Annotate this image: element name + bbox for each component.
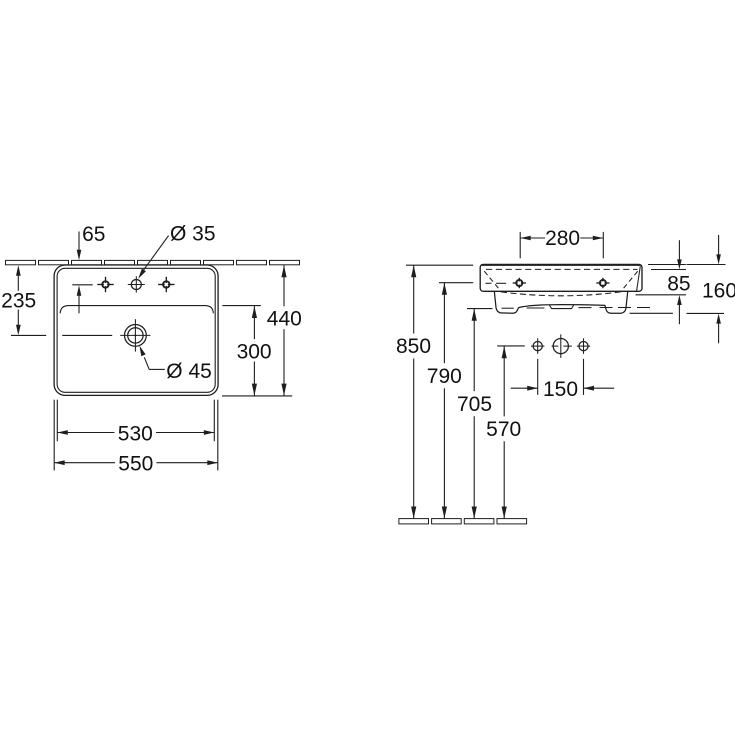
dimension 300 <box>222 306 271 396</box>
svg-text:705: 705 <box>457 393 492 416</box>
dimension 85 <box>667 240 690 324</box>
tap hole cross left <box>97 277 113 292</box>
svg-text:160: 160 <box>702 279 735 302</box>
svg-text:850: 850 <box>396 335 431 358</box>
svg-text:150: 150 <box>543 378 578 401</box>
svg-text:Ø 45: Ø 45 <box>166 360 212 383</box>
tap centre line tick <box>72 284 92 286</box>
drain centre line <box>11 334 112 336</box>
drain cover tab <box>549 305 573 309</box>
basin top reference lines <box>648 264 726 266</box>
body bottom reference line <box>636 294 687 296</box>
basin inner rim outline <box>57 268 215 392</box>
svg-text:85: 85 <box>667 272 690 295</box>
svg-text:Ø 35: Ø 35 <box>170 223 216 246</box>
dimension 235 <box>1 265 36 335</box>
dimension 150 <box>511 359 615 401</box>
hidden bowl slant right <box>621 271 638 291</box>
dimension 705 <box>457 309 493 519</box>
dimension 530 <box>57 400 214 446</box>
depth extension line <box>222 395 292 397</box>
lower fixing cross left <box>531 338 544 354</box>
svg-text:235: 235 <box>1 290 36 313</box>
dimension 570 <box>486 346 525 519</box>
fixing hole cross right <box>596 278 609 288</box>
drain hole circles <box>120 319 150 351</box>
bracket hidden line <box>502 307 651 310</box>
svg-text:280: 280 <box>545 227 580 250</box>
dimension Ø 35 <box>138 223 215 279</box>
hidden bowl slant left <box>484 271 501 291</box>
rim reference line <box>651 269 686 271</box>
bracket bottom reference line <box>630 312 724 314</box>
mounting bracket outline <box>494 292 627 313</box>
dimension 280 <box>520 227 603 258</box>
tap hole cross right <box>158 277 174 292</box>
tap deck edge line <box>60 306 213 314</box>
svg-text:65: 65 <box>82 223 105 246</box>
lower fixing circle centre <box>552 334 572 358</box>
dimension 65 <box>77 223 106 313</box>
dimension 160 <box>702 235 735 343</box>
svg-text:530: 530 <box>118 422 153 445</box>
hidden rim line <box>486 268 638 270</box>
basin body outline (front view) <box>480 264 642 291</box>
dimension 790 <box>427 283 473 519</box>
dimension 550 <box>54 400 218 476</box>
floor line (front view) <box>399 519 527 524</box>
dimension 440 <box>267 265 302 395</box>
basin outer outline (top view) <box>54 265 218 395</box>
svg-text:570: 570 <box>486 418 521 441</box>
dimension Ø 45 <box>140 346 212 383</box>
hidden bowl bottom curve <box>501 292 621 296</box>
svg-text:440: 440 <box>267 308 302 331</box>
fixing hole cross left <box>513 278 526 288</box>
svg-text:550: 550 <box>118 452 153 475</box>
lower fixing cross right <box>577 338 590 354</box>
svg-text:790: 790 <box>427 365 462 388</box>
wall line (top view) <box>6 260 300 264</box>
fixing centre line <box>486 282 507 284</box>
dimension 850 <box>396 265 473 518</box>
svg-text:300: 300 <box>237 340 272 363</box>
tap hole circle center <box>128 276 145 292</box>
